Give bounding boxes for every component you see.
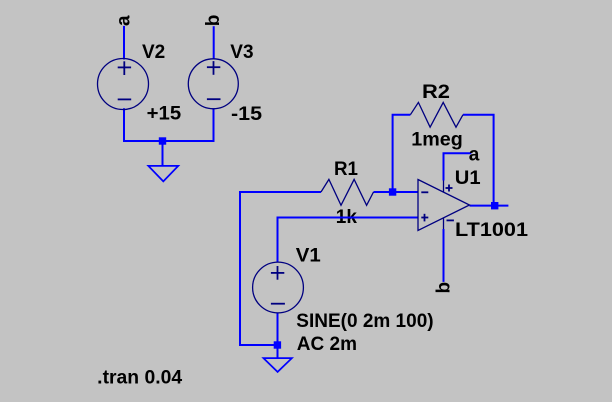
- svg-text:V1: V1: [296, 246, 321, 267]
- svg-text:-15: -15: [231, 104, 262, 125]
- svg-text:U1: U1: [455, 168, 481, 189]
- svg-text:b: b: [433, 282, 454, 294]
- svg-text:a: a: [469, 145, 480, 166]
- svg-text:b: b: [203, 15, 224, 27]
- svg-text:1meg: 1meg: [411, 129, 463, 150]
- svg-text:R2: R2: [422, 82, 450, 103]
- svg-text:a: a: [114, 15, 135, 26]
- svg-text:LT1001: LT1001: [455, 220, 528, 241]
- svg-text:AC 2m: AC 2m: [297, 334, 357, 355]
- svg-text:R1: R1: [334, 159, 358, 180]
- svg-text:V3: V3: [230, 42, 253, 63]
- svg-text:.tran 0.04: .tran 0.04: [97, 367, 182, 388]
- svg-text:V2: V2: [142, 42, 165, 63]
- svg-text:SINE(0 2m 100): SINE(0 2m 100): [296, 311, 433, 332]
- svg-text:+15: +15: [147, 104, 182, 125]
